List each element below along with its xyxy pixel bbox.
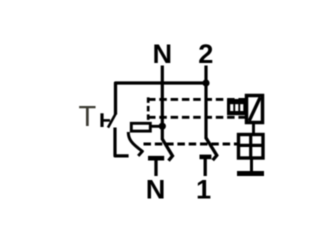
switch blade pole 2 (206, 138, 217, 160)
wire: top test branch from pole 2 junction to test button (116, 83, 207, 115)
svg-text:N: N (152, 38, 172, 69)
test button plunger (100, 113, 103, 127)
linkage dash line C (144, 143, 238, 146)
test button contact blade (108, 113, 116, 127)
wire: relay to toroid (252, 123, 255, 134)
linkage dash line B (148, 116, 246, 119)
terminal bar pole 1 bottom (200, 155, 212, 160)
svg-text:2: 2 (198, 38, 213, 69)
terminal stem pole 1 bottom (204, 159, 207, 176)
toroid current transformer (square with cross) (239, 135, 264, 159)
node: junction dot on N pole (159, 123, 166, 130)
wire: pole 2 vertical (204, 66, 207, 140)
resistor R test (131, 123, 150, 131)
wire: pole N vertical (161, 66, 164, 141)
wire: toroid stem bottom (250, 158, 253, 171)
earth bar termination (237, 171, 264, 176)
trip relay box with diagonal (247, 96, 263, 123)
terminal stem pole N bottom (154, 160, 157, 176)
wire: test branch lower L to fixed contact (115, 128, 129, 156)
switch blade pole N (163, 139, 173, 160)
wire: resistor to N pole (152, 125, 161, 128)
mechanism dashed bracket (147, 97, 150, 120)
linkage dash line A (148, 98, 247, 101)
svg-text:T: T (79, 101, 97, 133)
trip coil winding (hatched box) (227, 99, 247, 115)
node: junction dot on pole 2 (202, 79, 209, 86)
test switch blade from resistor (128, 132, 142, 156)
svg-text:1: 1 (196, 174, 211, 205)
svg-text:N: N (146, 174, 166, 205)
terminal bar pole N bottom (148, 156, 164, 161)
